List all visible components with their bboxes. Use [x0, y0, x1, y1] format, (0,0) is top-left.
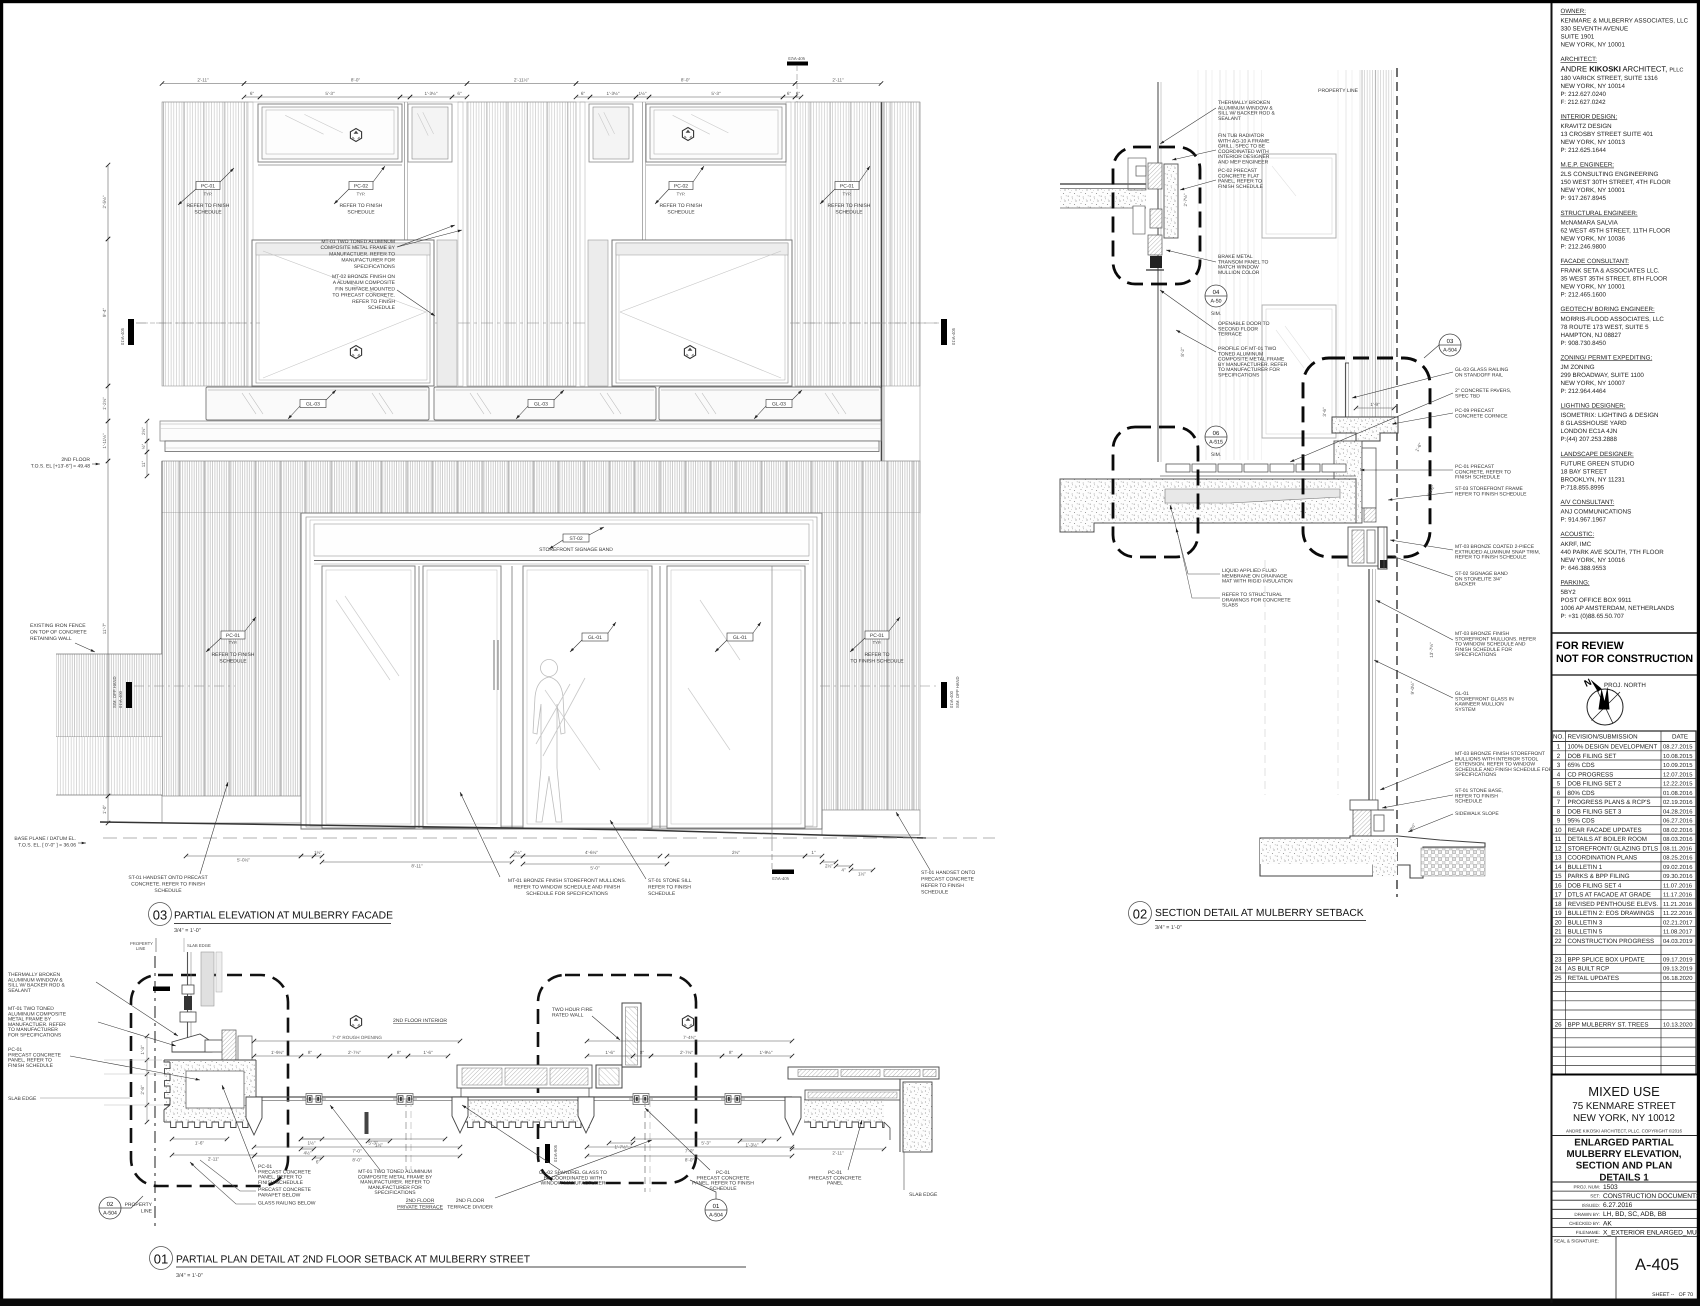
- svg-text:8: 8: [1557, 808, 1561, 815]
- drawing 03: partial elevation at Mulberry facade: [14, 56, 995, 952]
- svg-text:LANDSCAPE DESIGNER:: LANDSCAPE DESIGNER:: [1561, 451, 1635, 458]
- svg-text:06: 06: [1213, 430, 1220, 437]
- svg-text:12.07.2015: 12.07.2015: [1663, 771, 1693, 778]
- svg-text:7'-0": 7'-0": [352, 1148, 362, 1153]
- svg-text:1'-3½": 1'-3½": [607, 91, 620, 96]
- svg-text:A/V CONSULTANT:: A/V CONSULTANT:: [1561, 499, 1615, 506]
- svg-text:1'-11½": 1'-11½": [102, 433, 107, 449]
- svg-text:SET:: SET:: [1590, 1194, 1600, 1199]
- svg-text:ZONING/ PERMIT EXPEDITING:: ZONING/ PERMIT EXPEDITING:: [1561, 354, 1653, 361]
- svg-text:ON STANDOFF RAIL: ON STANDOFF RAIL: [1455, 372, 1503, 378]
- svg-text:LH, BD, SC, ADB, BB: LH, BD, SC, ADB, BB: [1603, 1211, 1667, 1218]
- glazing reflections: [336, 600, 390, 680]
- svg-text:1'-2½": 1'-2½": [102, 397, 107, 410]
- svg-text:02\A-405: 02\A-405: [772, 876, 790, 881]
- svg-text:8 GLASSHOUSE YARD: 8 GLASSHOUSE YARD: [1561, 420, 1628, 427]
- svg-text:11.08.2017: 11.08.2017: [1663, 929, 1692, 936]
- svg-text:SCHEDULE: SCHEDULE: [648, 891, 676, 897]
- svg-text:REFER TO FINISH: REFER TO FINISH: [828, 203, 871, 209]
- svg-text:DOB FILING SET 3: DOB FILING SET 3: [1568, 808, 1622, 815]
- svg-text:01\A-405: 01\A-405: [951, 327, 956, 345]
- svg-text:TERRACE DIVIDER: TERRACE DIVIDER: [447, 1205, 493, 1211]
- svg-text:5BY2: 5BY2: [1561, 589, 1577, 596]
- svg-text:BACKER: BACKER: [1455, 582, 1476, 588]
- svg-text:FOR REVIEW: FOR REVIEW: [1556, 640, 1625, 652]
- center precast pier (plan): [457, 1065, 592, 1088]
- svg-text:8'-2": 8'-2": [1180, 347, 1185, 357]
- svg-text:P: 212.964.4464: P: 212.964.4464: [1561, 388, 1607, 395]
- svg-text:ENLARGED PARTIAL: ENLARGED PARTIAL: [1574, 1138, 1673, 1149]
- svg-text:1'-6": 1'-6": [605, 1050, 615, 1055]
- svg-text:NO.: NO.: [1553, 734, 1564, 741]
- svg-text:HAMPTON, NJ 08827: HAMPTON, NJ 08827: [1561, 332, 1622, 339]
- svg-text:4½": 4½": [303, 1150, 311, 1155]
- svg-text:A ALUMINUM COMPOSITE: A ALUMINUM COMPOSITE: [333, 280, 396, 286]
- svg-text:REFER TO FINISH: REFER TO FINISH: [187, 203, 230, 209]
- svg-text:10.13.2020: 10.13.2020: [1663, 1021, 1693, 1028]
- svg-text:PROGRESS PLANS & RCP'S: PROGRESS PLANS & RCP'S: [1568, 799, 1651, 806]
- svg-text:RETAINING WALL: RETAINING WALL: [30, 636, 72, 642]
- svg-text:SIM.: SIM.: [1211, 452, 1221, 458]
- svg-text:PROPERTY: PROPERTY: [125, 1202, 153, 1208]
- window sill mullion (pointed, right): [785, 1097, 801, 1135]
- svg-text:MULBERRY ELEVATION,: MULBERRY ELEVATION,: [1566, 1149, 1681, 1160]
- svg-text:ST-01 STONE SILL: ST-01 STONE SILL: [648, 878, 692, 884]
- svg-text:FIN SURFACE MOUNTED: FIN SURFACE MOUNTED: [335, 286, 395, 292]
- svg-text:NEW YORK, NY 10001: NEW YORK, NY 10001: [1561, 187, 1626, 194]
- svg-text:RATED WALL: RATED WALL: [552, 1012, 584, 1018]
- svg-text:2'-11": 2'-11": [208, 1156, 220, 1161]
- svg-text:06.27.2016: 06.27.2016: [1663, 818, 1693, 825]
- svg-text:12.22.2015: 12.22.2015: [1663, 781, 1693, 788]
- svg-text:SCHEDULE: SCHEDULE: [347, 210, 375, 216]
- svg-text:P: 908.730.8450: P: 908.730.8450: [1561, 340, 1607, 347]
- storefront frame: [301, 513, 822, 829]
- svg-text:35 WEST 35TH STREET, 8TH FLOOR: 35 WEST 35TH STREET, 8TH FLOOR: [1561, 276, 1668, 283]
- svg-text:KENMARE & MULBERRY ASSOCIATES,: KENMARE & MULBERRY ASSOCIATES, LLC: [1561, 18, 1689, 25]
- svg-text:10: 10: [1555, 827, 1562, 834]
- top dimension string row 2: [244, 96, 260, 98]
- svg-text:WINDOW MANUFACTURER: WINDOW MANUFACTURER: [541, 1181, 606, 1187]
- svg-text:8'-0": 8'-0": [685, 1157, 695, 1162]
- 2nd floor slab (upper left): [1060, 183, 1146, 185]
- svg-text:RETAIL UPDATES: RETAIL UPDATES: [1568, 975, 1619, 982]
- svg-text:P: 917.267.8945: P: 917.267.8945: [1561, 195, 1607, 202]
- svg-text:FILENAME:: FILENAME:: [1576, 1230, 1600, 1235]
- svg-text:1503: 1503: [1603, 1184, 1618, 1191]
- svg-text:TYP.: TYP.: [204, 192, 213, 197]
- svg-text:PARKS & BPP FILING: PARKS & BPP FILING: [1568, 873, 1630, 880]
- svg-text:PROPERTY LINE: PROPERTY LINE: [1318, 88, 1358, 94]
- svg-text:4: 4: [1557, 771, 1561, 778]
- svg-text:T.O.S. EL [+13'-6"] = 49.48: T.O.S. EL [+13'-6"] = 49.48: [31, 464, 90, 470]
- svg-text:ISOMETRIX: LIGHTING & DESIGN: ISOMETRIX: LIGHTING & DESIGN: [1561, 412, 1659, 419]
- elevation datum markers 01/A-405: [128, 319, 134, 345]
- GL-01 labels: [582, 633, 608, 641]
- svg-text:COORDINATION PLANS: COORDINATION PLANS: [1568, 855, 1638, 862]
- svg-text:SCHEDULE: SCHEDULE: [368, 305, 396, 311]
- svg-text:12: 12: [1555, 845, 1562, 852]
- mullion hardware cluster: [629, 1094, 653, 1105]
- svg-text:TYP.: TYP.: [357, 192, 366, 197]
- interior elevation beyond (faint): [1196, 70, 1262, 460]
- svg-text:299 BROADWAY, SUITE 1100: 299 BROADWAY, SUITE 1100: [1561, 372, 1645, 379]
- svg-text:PC-01: PC-01: [840, 183, 854, 189]
- svg-text:GEOTECH/ BORING ENGINEER:: GEOTECH/ BORING ENGINEER:: [1561, 306, 1655, 313]
- svg-text:02: 02: [107, 1201, 114, 1208]
- svg-text:REFER TO FINISH: REFER TO FINISH: [660, 203, 703, 209]
- svg-text:A-504: A-504: [1443, 348, 1457, 354]
- detail boundary 04 (dashed): [1113, 147, 1200, 284]
- svg-text:18: 18: [1555, 901, 1562, 908]
- svg-text:P:718.855.8995: P:718.855.8995: [1561, 484, 1605, 491]
- 2nd floor terrace divider: [365, 1112, 369, 1134]
- svg-text:NOT FOR CONSTRUCTION: NOT FOR CONSTRUCTION: [1556, 653, 1693, 665]
- svg-text:2ND FLOOR INTERIOR: 2ND FLOOR INTERIOR: [393, 1018, 447, 1024]
- svg-text:11.07.2016: 11.07.2016: [1663, 882, 1693, 889]
- svg-text:1'-9": 1'-9": [1370, 402, 1380, 407]
- window band (plan): [256, 1096, 792, 1098]
- svg-text:EXISTING IRON FENCE: EXISTING IRON FENCE: [30, 623, 86, 629]
- window jamb assembly (plan): [187, 952, 189, 1044]
- storefront sill / stone base: [1350, 800, 1378, 810]
- svg-text:03: 03: [153, 908, 167, 923]
- svg-text:02.19.2016: 02.19.2016: [1663, 799, 1693, 806]
- svg-text:INTERIOR DESIGN:: INTERIOR DESIGN:: [1561, 113, 1618, 120]
- svg-text:20: 20: [1555, 919, 1562, 926]
- svg-text:NEW YORK, NY 10012: NEW YORK, NY 10012: [1573, 1113, 1675, 1124]
- finish labels PC-01/PC-02: [196, 182, 220, 190]
- svg-text:BULLETIN 5: BULLETIN 5: [1568, 929, 1603, 936]
- svg-text:MAT WITH RIGID INSULATION: MAT WITH RIGID INSULATION: [1222, 579, 1293, 585]
- svg-text:SCHEDULE: SCHEDULE: [835, 210, 863, 216]
- svg-text:X_EXTERIOR ENLARGED_MULBERR: X_EXTERIOR ENLARGED_MULBERR: [1603, 1229, 1700, 1236]
- bay1 main window: [252, 240, 434, 386]
- svg-text:TYP.: TYP.: [677, 192, 686, 197]
- balcony structural slab: [1060, 479, 1356, 532]
- svg-text:08.03.2016: 08.03.2016: [1663, 836, 1693, 843]
- svg-text:2ND FLOOR: 2ND FLOOR: [456, 1198, 485, 1204]
- svg-text:11.21.2016: 11.21.2016: [1663, 901, 1693, 908]
- svg-text:8": 8": [397, 1050, 402, 1055]
- svg-text:DETAILS AT BOILER ROOM: DETAILS AT BOILER ROOM: [1568, 836, 1647, 843]
- sidewalk subbase hatch: [1421, 848, 1485, 876]
- svg-text:13'-7½": 13'-7½": [1429, 642, 1434, 658]
- svg-text:02.21.2017: 02.21.2017: [1663, 919, 1692, 926]
- svg-text:180 VARICK STREET, SUITE 1316: 180 VARICK STREET, SUITE 1316: [1561, 75, 1659, 82]
- bay2 transom window: [646, 104, 786, 162]
- svg-text:04.28.2016: 04.28.2016: [1663, 808, 1693, 815]
- svg-text:1½": 1½": [858, 871, 866, 876]
- svg-text:STOREFRONT/ GLAZING DTLS: STOREFRONT/ GLAZING DTLS: [1568, 845, 1659, 852]
- svg-text:BULLETIN 3: BULLETIN 3: [1568, 919, 1603, 926]
- FOR REVIEW stamp: [1552, 632, 1698, 634]
- svg-text:1'-9½": 1'-9½": [760, 1050, 773, 1055]
- svg-text:A-515: A-515: [1209, 440, 1223, 446]
- top dimension string row 1: [162, 83, 244, 85]
- svg-text:ANDRE KIKOSKI ARCHITECT, PLLC: ANDRE KIKOSKI ARCHITECT, PLLC: [1561, 64, 1684, 73]
- PC-09 precast cornice block: [1332, 417, 1398, 441]
- svg-text:ANJ COMMUNICATIONS: ANJ COMMUNICATIONS: [1561, 509, 1632, 516]
- svg-text:SCHEDULE: SCHEDULE: [1455, 799, 1483, 805]
- svg-text:ST-01 HANDSET ONTO: ST-01 HANDSET ONTO: [921, 870, 975, 876]
- svg-text:BULLETIN 2: EOS DRAWINGS: BULLETIN 2: EOS DRAWINGS: [1568, 910, 1655, 917]
- svg-text:GL-01: GL-01: [588, 635, 602, 641]
- svg-text:FUTURE GREEN STUDIO: FUTURE GREEN STUDIO: [1561, 460, 1635, 467]
- svg-text:P: 212.246.9800: P: 212.246.9800: [1561, 243, 1607, 250]
- svg-text:8'-0": 8'-0": [352, 1157, 362, 1162]
- svg-text:SPECIFICATIONS: SPECIFICATIONS: [1455, 652, 1497, 658]
- svg-text:SUITE 1901: SUITE 1901: [1561, 34, 1595, 41]
- svg-text:DTLS AT FACADE AT GRADE: DTLS AT FACADE AT GRADE: [1568, 892, 1651, 899]
- svg-text:2½": 2½": [732, 850, 740, 855]
- svg-text:5'-3": 5'-3": [325, 91, 335, 96]
- svg-text:A-504: A-504: [103, 1211, 117, 1217]
- svg-text:19: 19: [1555, 910, 1562, 917]
- svg-text:8": 8": [640, 1050, 645, 1055]
- svg-text:AKRF, IMC: AKRF, IMC: [1561, 541, 1592, 548]
- svg-text:2'-8": 2'-8": [140, 1085, 145, 1095]
- svg-text:PANEL: PANEL: [827, 1181, 843, 1187]
- svg-text:18 BAY STREET: 18 BAY STREET: [1561, 468, 1608, 475]
- svg-text:CONSTRUCTION PROGRESS: CONSTRUCTION PROGRESS: [1568, 938, 1655, 945]
- svg-text:A-504: A-504: [709, 1213, 723, 1219]
- svg-text:NEW YORK, NY 10013: NEW YORK, NY 10013: [1561, 139, 1626, 146]
- svg-text:REFER TO FINISH: REFER TO FINISH: [352, 299, 395, 305]
- svg-text:2'-11": 2'-11": [832, 1150, 844, 1155]
- svg-text:1'-6": 1'-6": [423, 1050, 433, 1055]
- bay2 narrow transom: [589, 104, 633, 162]
- svg-text:7'-0" ROUGH OPENING: 7'-0" ROUGH OPENING: [332, 1035, 382, 1040]
- svg-text:01: 01: [154, 1252, 168, 1267]
- revision/submission table: [1552, 731, 1696, 1075]
- plan lower dimension strings: [172, 1154, 255, 1156]
- svg-text:PC-01: PC-01: [201, 183, 215, 189]
- svg-text:SIM. OPP HAND: SIM. OPP HAND: [955, 676, 960, 708]
- svg-text:LIGHTING DESIGNER:: LIGHTING DESIGNER:: [1561, 403, 1626, 410]
- svg-text:01.08.2016: 01.08.2016: [1663, 790, 1693, 797]
- svg-text:2'-7½": 2'-7½": [1183, 193, 1188, 206]
- svg-text:MIXED USE: MIXED USE: [1588, 1084, 1660, 1099]
- svg-text:80% CDS: 80% CDS: [1568, 790, 1595, 797]
- svg-text:15: 15: [1555, 873, 1562, 880]
- svg-text:FACADE CONSULTANT:: FACADE CONSULTANT:: [1561, 258, 1630, 265]
- svg-text:01\A-400: 01\A-400: [118, 690, 123, 708]
- svg-text:9: 9: [1557, 818, 1561, 825]
- svg-text:COMPOSITE METAL FRAME BY: COMPOSITE METAL FRAME BY: [321, 245, 396, 251]
- svg-text:SCHEDULE: SCHEDULE: [667, 210, 695, 216]
- svg-text:FINISH SCHEDULE: FINISH SCHEDULE: [1218, 184, 1264, 190]
- svg-text:BPP MULBERRY ST. TREES: BPP MULBERRY ST. TREES: [1568, 1021, 1649, 1028]
- precast concrete panel (plan, stippled): [164, 1060, 256, 1122]
- svg-text:1'-9½": 1'-9½": [271, 1050, 284, 1055]
- svg-text:GL-03: GL-03: [534, 401, 548, 407]
- svg-text:TYP.: TYP.: [843, 192, 852, 197]
- section marker 02/A-405 bottom: [772, 870, 794, 875]
- bay1 side glass strip: [437, 240, 457, 386]
- svg-text:BULLETIN 1: BULLETIN 1: [1568, 864, 1603, 871]
- svg-text:NEW YORK, NY 10016: NEW YORK, NY 10016: [1561, 557, 1626, 564]
- svg-text:ACOUSTIC:: ACOUSTIC:: [1561, 531, 1595, 538]
- svg-text:6": 6": [250, 91, 255, 96]
- svg-text:4": 4": [841, 867, 846, 872]
- svg-text:BASE PLANE / DATUM EL.: BASE PLANE / DATUM EL.: [14, 836, 76, 842]
- svg-text:SCHEDULE: SCHEDULE: [154, 888, 182, 894]
- lower facade wall hatch left pier: [162, 513, 301, 796]
- detail boundary rect 2 (dashed): [538, 975, 696, 1183]
- svg-text:SLABS: SLABS: [1222, 603, 1239, 609]
- datum dash-dot across elevation: [136, 322, 941, 324]
- svg-text:PRIVATE TERRACE: PRIVATE TERRACE: [397, 1205, 444, 1211]
- panel interior void: [186, 1071, 244, 1108]
- svg-text:SCHEDULE FOR SPECIFICATIONS: SCHEDULE FOR SPECIFICATIONS: [526, 891, 609, 897]
- svg-text:MT-01 TWO TONED ALUMINUM: MT-01 TWO TONED ALUMINUM: [321, 239, 395, 245]
- svg-text:2½": 2½": [825, 863, 833, 868]
- callout 02/A-504: [99, 1197, 121, 1219]
- svg-text:SHEET -- OF 70: SHEET -- OF 70: [1652, 1292, 1693, 1298]
- lower facade wall hatch right pier: [822, 513, 920, 810]
- svg-text:6": 6": [796, 91, 801, 96]
- svg-text:CHECKED BY:: CHECKED BY:: [1569, 1221, 1600, 1226]
- svg-text:8'-0": 8'-0": [351, 78, 361, 83]
- svg-text:SIDEWALK SLOPE: SIDEWALK SLOPE: [1455, 811, 1499, 817]
- svg-text:SYSTEM: SYSTEM: [1455, 707, 1476, 713]
- svg-text:DRAWN BY:: DRAWN BY:: [1574, 1212, 1600, 1217]
- svg-text:P: 212.465.1600: P: 212.465.1600: [1561, 292, 1607, 299]
- svg-text:01\A-905: 01\A-905: [553, 1144, 558, 1162]
- svg-text:SECTION DETAIL AT MULBERRY SET: SECTION DETAIL AT MULBERRY SETBACK: [1155, 908, 1364, 919]
- precast pier hatch left: [162, 102, 248, 386]
- pier sill mullion right: [578, 1097, 594, 1133]
- svg-text:FINISH SCHEDULE: FINISH SCHEDULE: [8, 1063, 54, 1069]
- svg-text:REVISED PENTHOUSE ELEVS.: REVISED PENTHOUSE ELEVS.: [1568, 901, 1659, 908]
- svg-text:5: 5: [1557, 781, 1561, 788]
- plan left dim chain: [146, 1036, 148, 1122]
- svg-text:GL-03: GL-03: [306, 401, 320, 407]
- svg-text:REFER TO WINDOW SCHEDULE AND F: REFER TO WINDOW SCHEDULE AND FINISH: [514, 885, 621, 891]
- svg-text:09.02.2016: 09.02.2016: [1663, 864, 1693, 871]
- mullion hardware cluster: [393, 1094, 417, 1105]
- svg-text:SCHEDULE: SCHEDULE: [219, 659, 247, 665]
- svg-text:SIM.: SIM.: [1211, 311, 1221, 317]
- svg-text:LONDON EC1A 4JN: LONDON EC1A 4JN: [1561, 428, 1618, 435]
- svg-text:2½": 2½": [513, 850, 521, 855]
- svg-text:T.O.S. EL. [ 0'-0" ] = 36.06: T.O.S. EL. [ 0'-0" ] = 36.06: [18, 843, 76, 849]
- svg-text:SCHEDULE: SCHEDULE: [194, 210, 222, 216]
- svg-text:78 ROUTE 173 WEST, SUITE 5: 78 ROUTE 173 WEST, SUITE 5: [1561, 324, 1650, 331]
- svg-text:P: +31 (0)88.65.50.707: P: +31 (0)88.65.50.707: [1561, 613, 1625, 620]
- project info block: [1552, 1074, 1698, 1076]
- svg-text:1: 1: [1557, 744, 1561, 751]
- balcony glass railing GL-03: [206, 387, 429, 420]
- svg-text:CONSTRUCTION DOCUMENTS: CONSTRUCTION DOCUMENTS: [1603, 1193, 1700, 1200]
- svg-text:PROJ. NORTH: PROJ. NORTH: [1604, 682, 1646, 689]
- svg-text:14: 14: [1555, 864, 1562, 871]
- svg-text:GL-03: GL-03: [772, 401, 786, 407]
- svg-text:REFER TO FINISH SCHEDULE: REFER TO FINISH SCHEDULE: [1455, 491, 1527, 497]
- svg-text:08.25.2016: 08.25.2016: [1663, 855, 1693, 862]
- svg-text:ON TOP OF CONCRETE: ON TOP OF CONCRETE: [30, 630, 87, 636]
- svg-text:P: 212.627.0240: P: 212.627.0240: [1561, 91, 1607, 98]
- svg-text:1": 1": [811, 850, 816, 855]
- svg-text:11.22.2016: 11.22.2016: [1663, 910, 1693, 917]
- human silhouette: [533, 660, 585, 823]
- svg-text:CONCRETE. REFER TO FINISH: CONCRETE. REFER TO FINISH: [131, 882, 205, 888]
- mullion hardware cluster: [302, 1094, 326, 1105]
- svg-text:TO PRECAST CONCRETE.: TO PRECAST CONCRETE.: [332, 293, 395, 299]
- storefront glazing mullions: [314, 560, 809, 562]
- bay2 side glass strip: [588, 240, 608, 386]
- svg-text:1'-6": 1'-6": [195, 1140, 205, 1145]
- svg-text:2ND FLOOR: 2ND FLOOR: [61, 457, 90, 463]
- bottom dimension strings: [186, 855, 301, 857]
- svg-text:PROJ. NUM:: PROJ. NUM:: [1573, 1185, 1600, 1190]
- svg-text:2LS CONSULTING ENGINEERING: 2LS CONSULTING ENGINEERING: [1561, 171, 1659, 178]
- svg-text:01: 01: [713, 1203, 720, 1210]
- title: 01 partial plan detail: [150, 1247, 173, 1270]
- svg-text:1½": 1½": [375, 1142, 383, 1147]
- svg-text:GL-01: GL-01: [733, 635, 747, 641]
- svg-text:ST-01 HANDSET ONTO PRECAST: ST-01 HANDSET ONTO PRECAST: [128, 875, 207, 881]
- sidewalk slab: [1260, 836, 1485, 878]
- svg-text:13: 13: [1555, 855, 1562, 862]
- svg-text:TYP.: TYP.: [229, 640, 238, 645]
- svg-text:1'-3½": 1'-3½": [746, 1142, 759, 1147]
- svg-text:PARKING:: PARKING:: [1561, 579, 1590, 586]
- svg-text:JM ZONING: JM ZONING: [1561, 364, 1595, 371]
- detail boundary rect 1 (dashed): [131, 975, 288, 1186]
- svg-text:2½": 2½": [141, 427, 146, 435]
- svg-text:2'-7½": 2'-7½": [348, 1050, 361, 1055]
- svg-text:REAR FACADE UPDATES: REAR FACADE UPDATES: [1568, 827, 1642, 834]
- svg-text:11.17.2016: 11.17.2016: [1663, 892, 1693, 899]
- svg-text:8": 8": [308, 1050, 313, 1055]
- svg-text:ST-02: ST-02: [569, 536, 583, 542]
- svg-text:6": 6": [457, 91, 462, 96]
- detail boundary 06 (dashed): [1113, 427, 1198, 557]
- svg-text:08.11.2016: 08.11.2016: [1663, 845, 1693, 852]
- svg-text:9'-0½": 9'-0½": [1410, 681, 1415, 694]
- window sill mullion (pointed, left): [246, 1097, 262, 1135]
- drawing 02: section detail at Mulberry setback: [1060, 68, 1553, 931]
- svg-text:SEAL & SIGNATURE:: SEAL & SIGNATURE:: [1554, 1239, 1599, 1244]
- svg-text:SECTION AND PLAN: SECTION AND PLAN: [1576, 1161, 1673, 1172]
- svg-text:NEW YORK, NY 10001: NEW YORK, NY 10001: [1561, 284, 1626, 291]
- svg-text:06.18.2020: 06.18.2020: [1663, 975, 1693, 982]
- svg-text:REFER TO FINISH: REFER TO FINISH: [921, 883, 964, 889]
- svg-text:PC-01: PC-01: [870, 633, 884, 639]
- bay mullion strips: [248, 102, 253, 386]
- svg-text:OWNER:: OWNER:: [1561, 8, 1587, 15]
- svg-text:24: 24: [1555, 966, 1562, 973]
- title: 03 partial elevation: [149, 903, 172, 926]
- svg-text:DATE: DATE: [1672, 734, 1688, 741]
- svg-text:AND MEP ENGINEER: AND MEP ENGINEER: [1218, 160, 1269, 166]
- storefront mullion and glass: [1368, 569, 1370, 800]
- svg-text:1'-3½": 1'-3½": [425, 91, 438, 96]
- svg-text:04.03.2019: 04.03.2019: [1663, 938, 1692, 945]
- svg-text:09.17.2019: 09.17.2019: [1663, 957, 1692, 964]
- svg-text:BPP SPLICE BOX UPDATE: BPP SPLICE BOX UPDATE: [1568, 957, 1645, 964]
- svg-text:1½": 1½": [314, 850, 322, 855]
- svg-text:04: 04: [1213, 289, 1220, 296]
- pier sill mullion left: [452, 1097, 468, 1133]
- svg-text:08.02.2016: 08.02.2016: [1663, 827, 1693, 834]
- svg-text:7: 7: [1557, 799, 1561, 806]
- ST-01 stone base strip left: [162, 796, 301, 823]
- svg-text:REFER TO FINISH: REFER TO FINISH: [340, 203, 383, 209]
- svg-text:6": 6": [316, 1159, 321, 1164]
